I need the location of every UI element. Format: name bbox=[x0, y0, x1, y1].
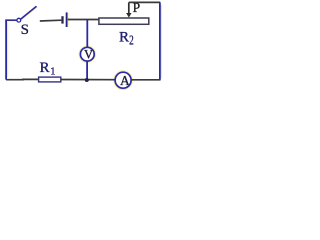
svg-text:V: V bbox=[84, 48, 93, 62]
yellow artifact fringe battery plate bbox=[67, 13, 69, 27]
wire battery to rheostat bbox=[68, 19, 100, 21]
rheostat slider arrowhead bbox=[126, 13, 131, 18]
voltmeter U-V circle bbox=[80, 47, 94, 61]
wire slider to top right bbox=[129, 1, 160, 3]
switch S pivot bbox=[17, 18, 21, 22]
battery positive plate bbox=[66, 12, 68, 27]
resistor R1 box bbox=[39, 77, 61, 82]
yellow artifact fringe ammeter bbox=[114, 71, 133, 90]
svg-text:S: S bbox=[21, 22, 29, 38]
yellow artifact fringe voltmeter bbox=[79, 46, 95, 62]
svg-text:2: 2 bbox=[129, 33, 134, 48]
battery negative plate bbox=[61, 16, 63, 23]
svg-text:1: 1 bbox=[50, 67, 55, 78]
yellow artifact fringe blade bbox=[22, 7, 38, 20]
wire bottom right bbox=[131, 79, 160, 81]
yellow artifact fringe left border bbox=[7, 22, 9, 77]
svg-text:A: A bbox=[120, 73, 130, 88]
wire switch contact to battery bbox=[40, 19, 62, 22]
rheostat R2 box bbox=[99, 18, 149, 24]
wire bottom left bbox=[6, 78, 40, 80]
switch S blade bbox=[21, 6, 37, 19]
wire left border bbox=[5, 20, 7, 80]
yellow artifact fringe right border bbox=[160, 5, 162, 78]
wire voltmeter bottom branch bbox=[86, 61, 88, 79]
wire voltmeter top branch bbox=[86, 20, 88, 48]
wire right border bbox=[159, 2, 161, 80]
svg-text:R: R bbox=[40, 60, 50, 76]
svg-text:R: R bbox=[119, 30, 129, 46]
ammeter U-A circle bbox=[115, 72, 131, 88]
wire top-left to switch bbox=[5, 19, 17, 21]
rheostat slider arrow stem bbox=[128, 2, 130, 13]
wire bottom middle bbox=[60, 79, 116, 81]
node junction dot bbox=[85, 78, 89, 82]
